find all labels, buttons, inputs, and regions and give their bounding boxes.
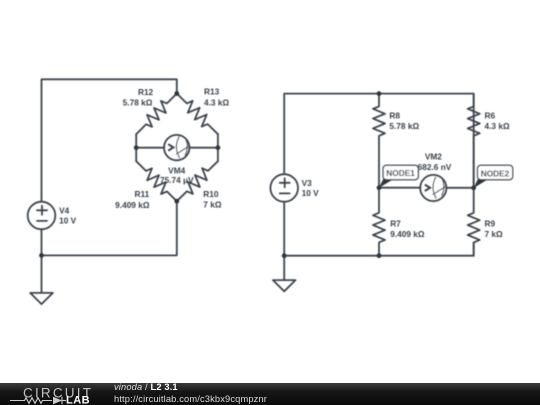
svg-text:R9: R9 [485, 219, 496, 229]
svg-text:9.409 kΩ: 9.409 kΩ [115, 200, 150, 210]
svg-text:VM4: VM4 [168, 166, 185, 176]
svg-text:4.3 kΩ: 4.3 kΩ [204, 98, 229, 108]
svg-text:V3: V3 [302, 178, 313, 188]
svg-text:5.78 kΩ: 5.78 kΩ [389, 121, 419, 131]
svg-text:NODE1: NODE1 [386, 168, 415, 178]
svg-text:R10: R10 [203, 189, 219, 199]
svg-text:R8: R8 [389, 111, 400, 121]
svg-text:R11: R11 [135, 189, 150, 199]
svg-text:R12: R12 [138, 87, 154, 97]
svg-text:V4: V4 [59, 206, 70, 216]
svg-text:10 V: 10 V [302, 188, 320, 198]
svg-text:7 kΩ: 7 kΩ [485, 229, 504, 239]
svg-text:7 kΩ: 7 kΩ [203, 199, 222, 209]
svg-text:R7: R7 [390, 219, 401, 229]
svg-text:9.409 kΩ: 9.409 kΩ [390, 229, 425, 239]
svg-text:5.78 kΩ: 5.78 kΩ [123, 98, 153, 108]
svg-text:682.6 nV: 682.6 nV [418, 162, 452, 172]
svg-text:4.3 kΩ: 4.3 kΩ [485, 121, 510, 131]
svg-text:R13: R13 [204, 87, 220, 97]
svg-text:VM2: VM2 [425, 152, 442, 162]
svg-text:NODE2: NODE2 [481, 168, 510, 178]
svg-text:75.74 μV: 75.74 μV [160, 175, 194, 185]
svg-text:LAB: LAB [66, 395, 90, 405]
svg-text:R6: R6 [485, 111, 496, 121]
svg-text:10 V: 10 V [59, 216, 77, 226]
